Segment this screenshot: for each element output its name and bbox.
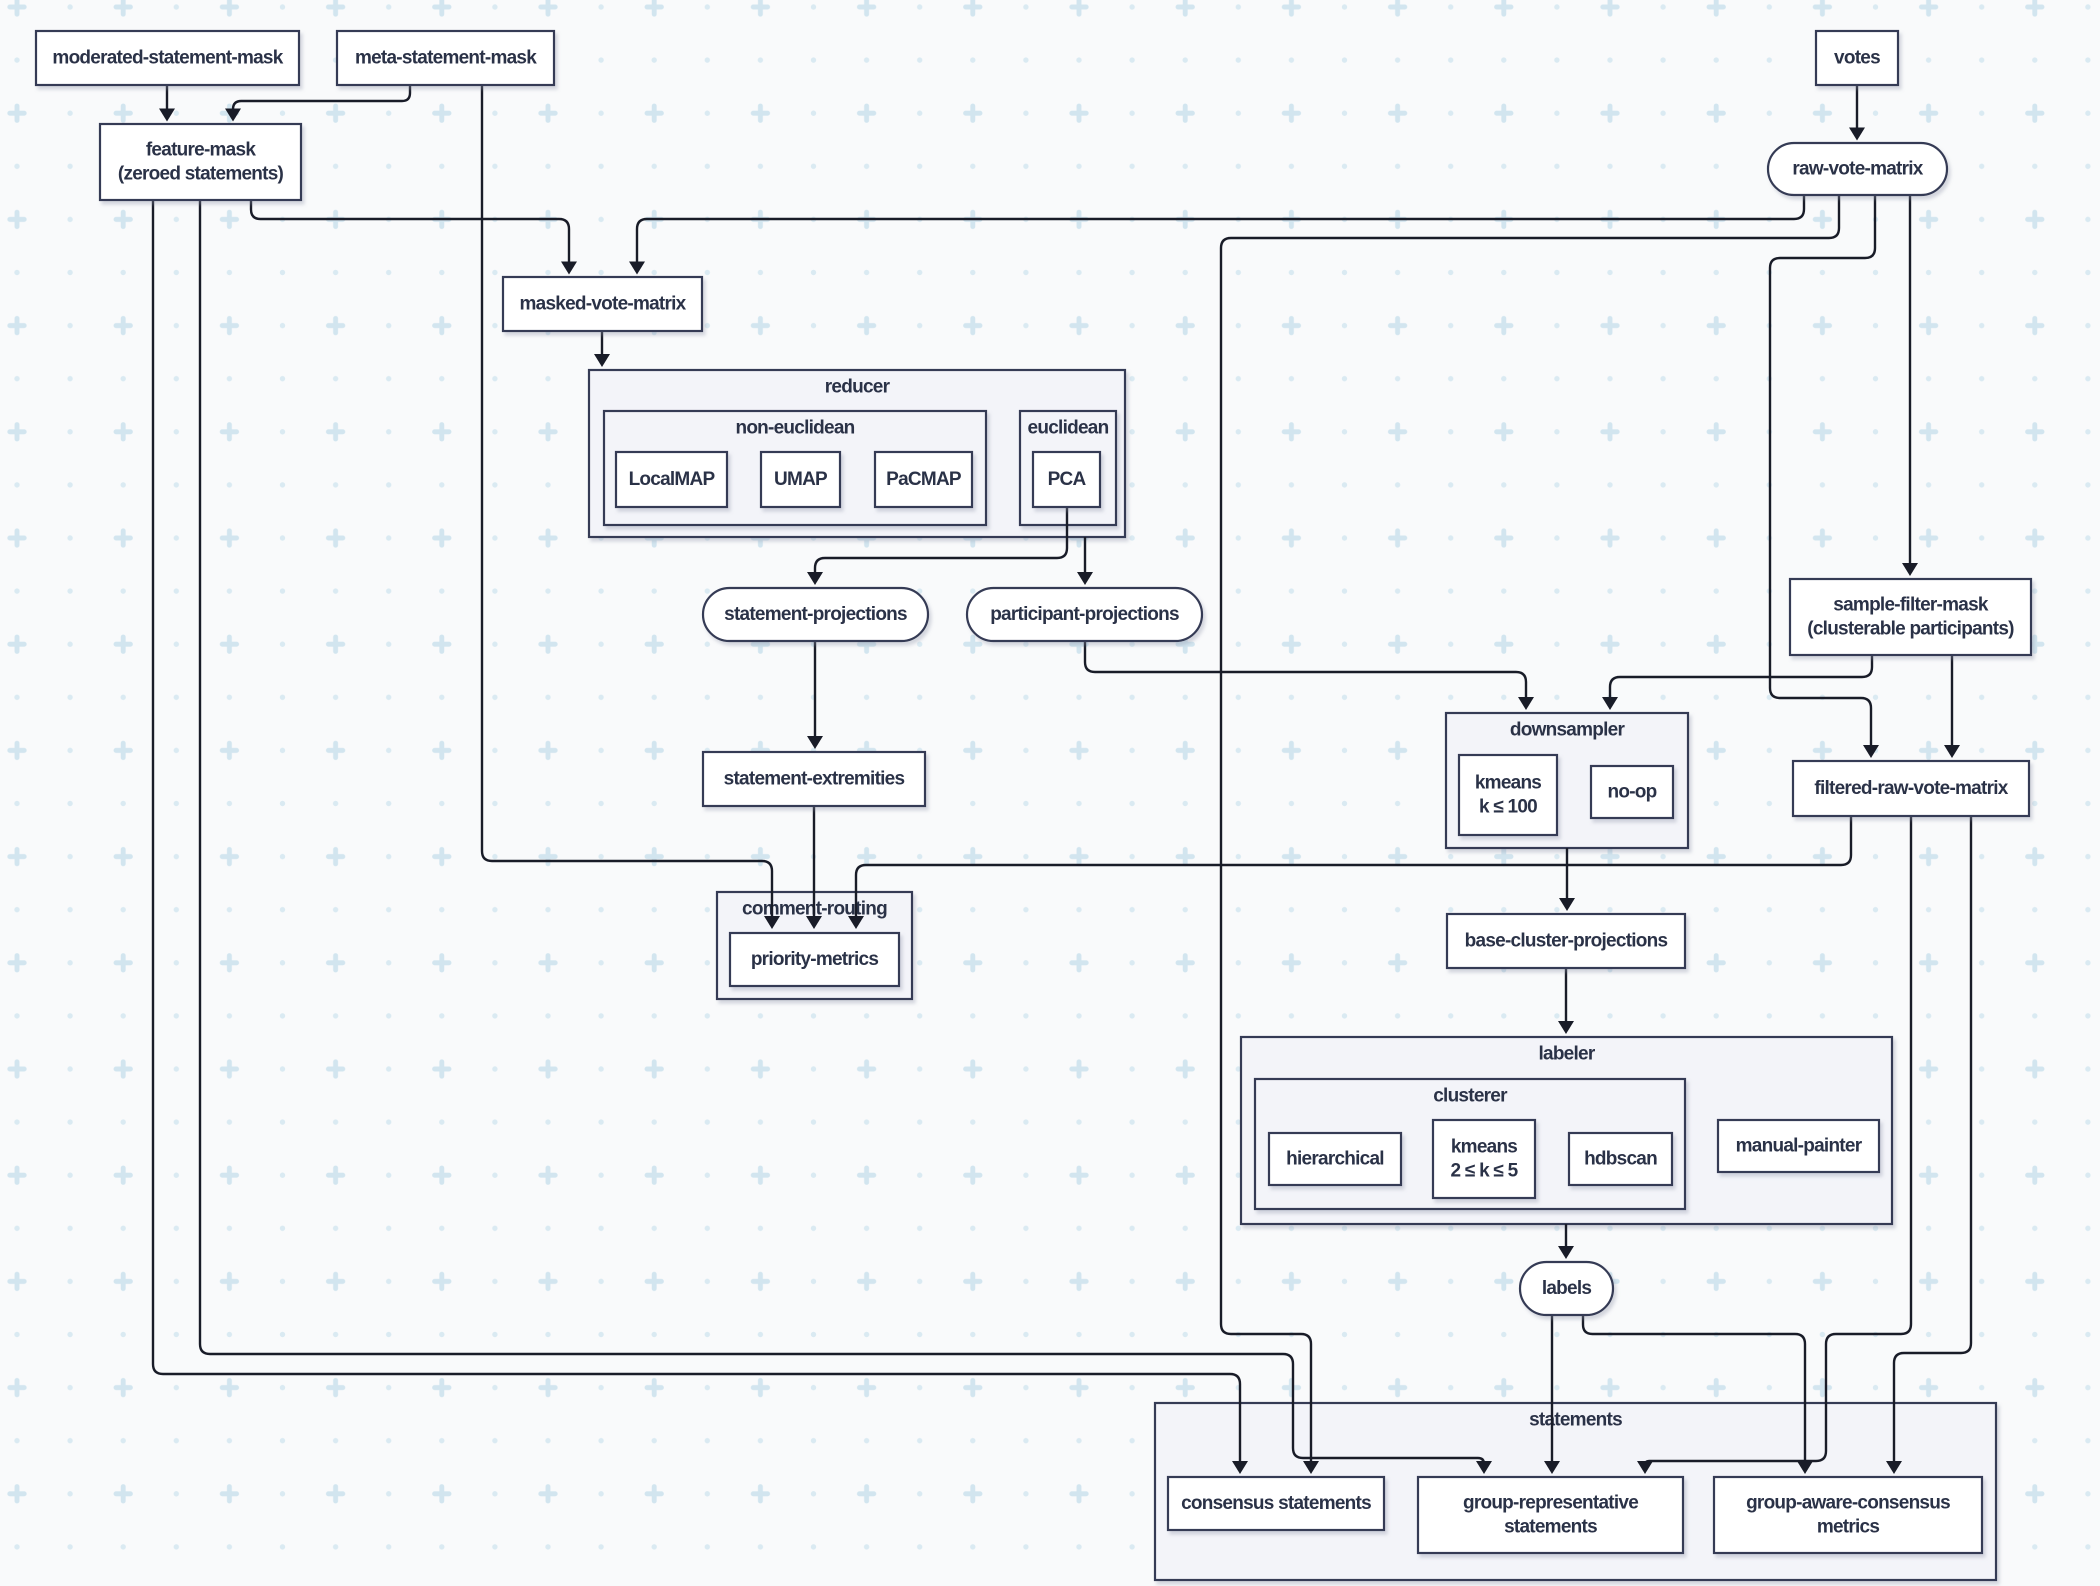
node filtered-raw-vote-matrix	[1793, 761, 2029, 816]
node euclidean (subgraph)	[1020, 411, 1116, 525]
svg-text:metrics: metrics	[1817, 1517, 1880, 1538]
svg-text:statement-extremities: statement-extremities	[724, 769, 905, 790]
svg-text:labels: labels	[1542, 1278, 1592, 1299]
node kmeans-downsampler	[1459, 755, 1557, 835]
svg-text:group-aware-consensus: group-aware-consensus	[1746, 1493, 1950, 1514]
wire statement-extremities to priority-metrics	[813, 806, 815, 925]
node base-cluster-projections	[1447, 914, 1685, 968]
svg-text:masked-vote-matrix: masked-vote-matrix	[519, 294, 686, 315]
node group-aware-consensus-metrics	[1714, 1477, 1982, 1553]
wire feature-mask to consensus-statements	[153, 200, 1240, 1470]
svg-text:feature-mask: feature-mask	[146, 140, 256, 161]
svg-text:base-cluster-projections: base-cluster-projections	[1465, 931, 1668, 952]
node no-op	[1591, 766, 1673, 818]
svg-text:statement-projections: statement-projections	[724, 604, 907, 625]
wire filtered-raw-vote-matrix to group-aware-consensus-metrics	[1894, 816, 1971, 1470]
svg-text:statements: statements	[1529, 1410, 1622, 1431]
node labels	[1520, 1262, 1613, 1315]
wire filtered-raw-vote-matrix to priority-metrics	[856, 816, 1851, 925]
svg-text:consensus statements: consensus statements	[1181, 1493, 1371, 1514]
wire sample-filter-mask to downsampler	[1610, 655, 1872, 706]
svg-text:raw-vote-matrix: raw-vote-matrix	[1792, 159, 1923, 180]
node priority-metrics	[730, 933, 899, 986]
svg-text:non-euclidean: non-euclidean	[735, 418, 854, 439]
node feature-mask	[100, 124, 301, 200]
svg-text:PaCMAP: PaCMAP	[886, 469, 962, 490]
svg-text:hdbscan: hdbscan	[1584, 1149, 1657, 1170]
svg-text:votes: votes	[1834, 48, 1880, 69]
svg-text:moderated-statement-mask: moderated-statement-mask	[52, 48, 283, 69]
wire moderated-statement-mask to feature-mask	[166, 85, 168, 118]
svg-text:meta-statement-mask: meta-statement-mask	[355, 48, 537, 69]
svg-text:kmeans: kmeans	[1451, 1137, 1517, 1158]
wire sample-filter-mask to filtered-raw-vote-matrix	[1951, 655, 1953, 754]
svg-text:participant-projections: participant-projections	[990, 604, 1179, 625]
svg-text:no-op: no-op	[1607, 782, 1656, 803]
wire reducer to participant-projections	[1084, 537, 1086, 581]
wire labels to group-aware-consensus-metrics	[1583, 1315, 1805, 1470]
node participant-projections	[967, 588, 1202, 641]
node hdbscan	[1569, 1133, 1672, 1185]
node manual-painter	[1718, 1120, 1879, 1172]
svg-text:clusterer: clusterer	[1433, 1086, 1508, 1107]
svg-text:k ≤ 100: k ≤ 100	[1479, 797, 1537, 818]
node PCA	[1033, 452, 1100, 507]
wire feature-mask to group-representative-statements	[200, 200, 1484, 1470]
svg-text:(zeroed statements): (zeroed statements)	[118, 164, 284, 185]
wire downsampler to base-cluster-projections	[1566, 848, 1568, 907]
svg-text:2 ≤ k ≤ 5: 2 ≤ k ≤ 5	[1451, 1161, 1519, 1182]
node labeler (subgraph)	[1241, 1037, 1892, 1224]
node non-euclidean (subgraph)	[604, 411, 986, 525]
wire masked-vote-matrix to reducer	[601, 331, 603, 363]
wire labeler to labels	[1565, 1224, 1567, 1255]
svg-text:filtered-raw-vote-matrix: filtered-raw-vote-matrix	[1814, 778, 2008, 799]
wire participant-projections to downsampler	[1085, 641, 1526, 706]
node masked-vote-matrix	[503, 277, 702, 331]
svg-text:UMAP: UMAP	[774, 469, 828, 490]
node PaCMAP	[875, 452, 972, 507]
wire base-cluster-projections to labeler	[1565, 968, 1567, 1030]
node moderated-statement-mask	[36, 31, 299, 85]
node UMAP	[761, 452, 840, 507]
node statement-extremities	[703, 752, 925, 806]
svg-text:euclidean: euclidean	[1028, 418, 1109, 439]
node meta-statement-mask	[337, 31, 554, 85]
wire meta-statement-mask to priority-metrics	[482, 85, 772, 925]
node statement-projections	[703, 588, 928, 641]
node kmeans-clusterer	[1433, 1120, 1535, 1198]
node group-representative-statements	[1418, 1477, 1683, 1553]
svg-text:LocalMAP: LocalMAP	[629, 469, 716, 490]
svg-text:reducer: reducer	[825, 377, 891, 398]
svg-text:labeler: labeler	[1538, 1044, 1595, 1065]
wire PCA to statement-projections	[815, 507, 1067, 581]
svg-text:group-representative: group-representative	[1463, 1493, 1638, 1514]
node sample-filter-mask	[1790, 579, 2031, 655]
node reducer (subgraph)	[589, 370, 1125, 537]
node raw-vote-matrix	[1768, 143, 1947, 195]
svg-text:statements: statements	[1504, 1517, 1597, 1538]
wire statement-projections to statement-extremities	[814, 641, 816, 745]
svg-text:PCA: PCA	[1048, 469, 1087, 490]
svg-text:kmeans: kmeans	[1475, 773, 1541, 794]
wire raw-vote-matrix to filtered-raw-vote-matrix	[1770, 195, 1875, 754]
node consensus-statements	[1168, 1477, 1384, 1530]
wire raw-vote-matrix to consensus-statements	[1221, 195, 1839, 1470]
node clusterer (subgraph)	[1255, 1079, 1685, 1209]
svg-text:(clusterable participants): (clusterable participants)	[1807, 619, 2014, 640]
node downsampler (subgraph)	[1446, 713, 1688, 848]
node votes	[1816, 31, 1898, 85]
node LocalMAP	[616, 452, 727, 507]
wire raw-vote-matrix to masked-vote-matrix	[637, 195, 1804, 271]
wire meta-statement-mask to feature-mask	[233, 85, 410, 118]
wire labels to group-representative-statements	[1551, 1315, 1553, 1470]
node comment-routing (subgraph)	[717, 892, 912, 999]
node statements (subgraph)	[1155, 1403, 1996, 1580]
svg-text:sample-filter-mask: sample-filter-mask	[1833, 595, 1989, 616]
svg-text:priority-metrics: priority-metrics	[751, 949, 879, 970]
wire votes to raw-vote-matrix	[1856, 85, 1858, 137]
wire raw-vote-matrix to sample-filter-mask	[1909, 195, 1911, 572]
wire filtered-raw-vote-matrix to group-representative-statements	[1645, 816, 1911, 1470]
svg-text:hierarchical: hierarchical	[1286, 1149, 1384, 1170]
node hierarchical	[1269, 1133, 1401, 1185]
svg-text:manual-painter: manual-painter	[1736, 1136, 1863, 1157]
wire feature-mask to masked-vote-matrix	[251, 200, 569, 271]
svg-text:downsampler: downsampler	[1510, 720, 1626, 741]
